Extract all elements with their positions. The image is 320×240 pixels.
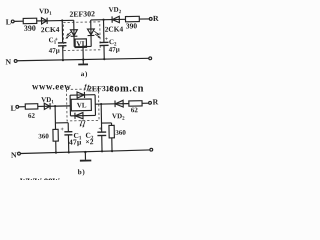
svg-text:VD1: VD1 xyxy=(41,96,54,106)
svg-text:N: N xyxy=(5,57,11,66)
diode VD1 (a) 2CK4 xyxy=(41,18,47,24)
wire right LED to VD2 xyxy=(91,19,112,21)
wire L to R1 xyxy=(14,20,23,22)
capacitor C2 (b) xyxy=(97,131,106,133)
svg-text:62: 62 xyxy=(131,106,139,114)
capacitor C1 (a) 47u xyxy=(61,21,63,43)
wire R1 to VD1 xyxy=(37,20,42,22)
svg-text:47µ: 47µ xyxy=(69,137,82,146)
LED upper arrows xyxy=(84,84,89,92)
node 360-1 bottom xyxy=(55,152,57,154)
node C1 bottom xyxy=(62,59,64,61)
capacitor C1 (b) branch xyxy=(55,122,68,124)
watermark www.eeworld.com.cn (middle band) xyxy=(20,82,144,187)
svg-text:47µ: 47µ xyxy=(49,47,60,55)
svg-text:VL: VL xyxy=(77,101,87,109)
resistor 360-1 branch xyxy=(54,106,56,129)
dashed box 2EF313 xyxy=(66,89,99,121)
node branch C2/360 top xyxy=(100,103,102,105)
node C2 top xyxy=(102,19,104,21)
lamp VL box (a) xyxy=(75,39,86,48)
wire to terminal R (a) xyxy=(139,18,149,20)
ground (b) xyxy=(84,152,86,160)
VL middle lead to ground xyxy=(82,47,84,64)
LED left (a) xyxy=(73,20,75,46)
svg-text:390: 390 xyxy=(24,24,36,33)
svg-text:2CK4: 2CK4 xyxy=(105,24,124,33)
LED right (a) xyxy=(90,20,92,46)
ground (a) xyxy=(78,63,88,65)
svg-text:L: L xyxy=(11,104,16,113)
svg-text:C2: C2 xyxy=(85,131,94,142)
wire R1 to VD1 (b) xyxy=(38,105,44,107)
LED upper (b) xyxy=(70,94,95,96)
wire to terminal R (b) xyxy=(142,102,149,104)
svg-text:b): b) xyxy=(78,168,86,176)
svg-text:a): a) xyxy=(81,70,88,78)
wire VD1 to LED box xyxy=(47,19,74,21)
diode VD2 (a) 2CK4, pointing left xyxy=(111,16,113,22)
svg-text:+: + xyxy=(55,37,59,43)
svg-text:R: R xyxy=(152,97,158,106)
node C1 top xyxy=(61,19,63,21)
resistor R2 62 (b) xyxy=(129,101,142,107)
wire box to VD2 (b) xyxy=(95,103,115,105)
resistor R1 62 (b) xyxy=(25,104,38,110)
svg-text:N: N xyxy=(11,151,17,160)
svg-text:+: + xyxy=(60,127,64,133)
diode VD2 (b), pointing left xyxy=(114,100,116,107)
LED common wire (a) xyxy=(74,45,91,47)
node R360-1 top xyxy=(54,105,56,107)
svg-text:360: 360 xyxy=(115,129,126,137)
svg-text:360: 360 xyxy=(38,132,49,140)
svg-text:R: R xyxy=(153,14,159,23)
lamp VL box (b) xyxy=(71,99,91,111)
resistor R1 390 (a) xyxy=(23,18,37,24)
svg-text:VD1: VD1 xyxy=(39,7,52,17)
wire VD1 to box (b) xyxy=(50,105,70,107)
LED left arrows xyxy=(65,32,71,39)
svg-text:2EF302: 2EF302 xyxy=(69,9,95,18)
svg-text:2CK4: 2CK4 xyxy=(41,25,60,34)
svg-text:62: 62 xyxy=(28,112,36,120)
wire VD2 to R2 xyxy=(119,18,125,20)
left pin vertical (b) xyxy=(69,95,71,116)
branch down to C2 and 360-2 xyxy=(100,104,103,132)
svg-text:47µ: 47µ xyxy=(109,45,120,53)
dashed box 2EF302 xyxy=(63,22,100,51)
svg-text:2EF313: 2EF313 xyxy=(88,84,114,93)
svg-text:www.eew: www.eew xyxy=(20,176,60,181)
wire L to R1 (b) xyxy=(19,106,25,108)
resistor R2 390 (a) xyxy=(125,16,139,22)
right pin vertical (b) xyxy=(94,95,96,116)
node C2 bottom xyxy=(103,58,105,60)
svg-text:VD2: VD2 xyxy=(108,6,121,16)
svg-text:VD2: VD2 xyxy=(112,112,125,122)
svg-text:390: 390 xyxy=(126,21,138,30)
svg-text:L: L xyxy=(6,17,11,26)
LED right arrows xyxy=(94,31,100,38)
capacitor C2 (a) 47u xyxy=(103,20,105,42)
resistor 360-2 branch xyxy=(102,122,112,124)
diode VD1 (b) xyxy=(44,103,50,109)
svg-text:www.eew: www.eew xyxy=(32,82,71,92)
LED lower arrows xyxy=(80,120,85,128)
LED lower (b), pointing left xyxy=(70,114,95,116)
